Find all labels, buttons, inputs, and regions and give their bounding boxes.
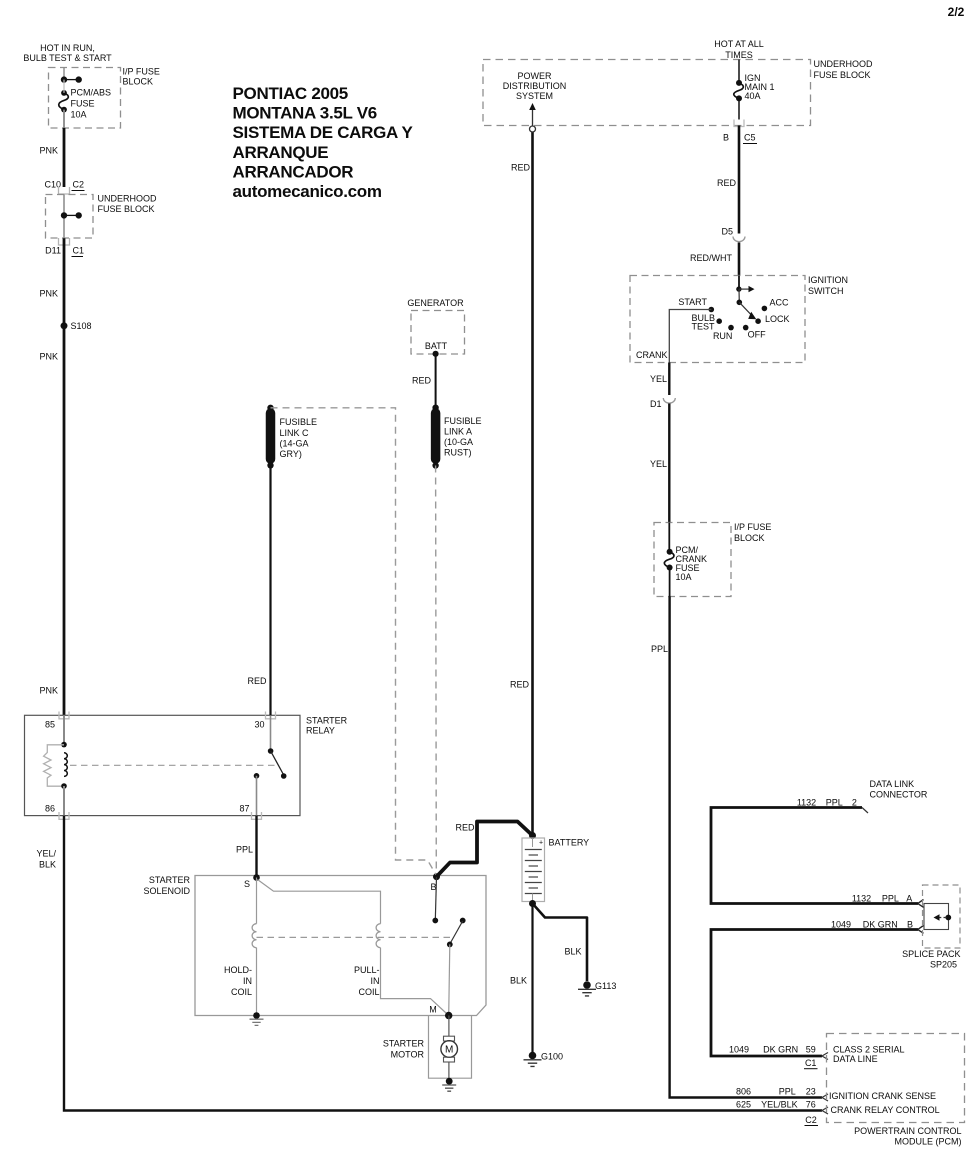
svg-text:RED: RED [412,376,432,386]
wire end tick at PCM pin 23 [822,1094,828,1101]
svg-text:C1: C1 [805,1058,817,1068]
svg-text:BATTERY: BATTERY [549,838,590,848]
wire 1049 DK GRN splice pack B to PCM 59 [711,919,924,1056]
svg-text:RUN: RUN [713,331,733,341]
svg-text:G100: G100 [541,1052,563,1062]
svg-text:BLOCK: BLOCK [734,533,765,543]
svg-text:CLASS 2 SERIAL: CLASS 2 SERIAL [833,1044,905,1054]
svg-text:PCM/ABS: PCM/ABS [71,88,112,98]
solenoid contact switch [432,877,465,1016]
svg-text:C1: C1 [73,246,85,256]
wire 1132 PPL DLC to splice pack A [711,808,924,908]
svg-text:PULL-: PULL- [354,965,380,975]
svg-text:MOTOR: MOTOR [391,1050,425,1060]
svg-text:BATT: BATT [425,341,448,351]
svg-text:1049: 1049 [831,919,851,929]
svg-text:PNK: PNK [39,686,58,696]
contact BULB TEST [691,313,722,332]
fuse PCM/CRANK 10A [664,523,707,597]
fusible link C [267,405,317,469]
svg-text:S: S [244,879,250,889]
svg-text:CRANK RELAY CONTROL: CRANK RELAY CONTROL [831,1105,940,1115]
pull-in coil [258,880,449,1016]
contact ACC [762,298,789,312]
svg-text:85: 85 [45,720,55,730]
fuse IGN MAIN 1 40A [734,60,775,120]
svg-text:1132: 1132 [797,797,816,807]
wire BLK battery to G113 [533,904,588,982]
connector D11 / C1 [45,238,84,257]
node battery negative [529,900,536,907]
svg-text:I/P FUSE: I/P FUSE [123,67,160,77]
svg-text:D5: D5 [721,227,733,237]
svg-text:IGNITION CRANK SENSE: IGNITION CRANK SENSE [829,1091,936,1101]
svg-text:BLK: BLK [564,947,581,957]
svg-text:RED: RED [455,823,475,833]
svg-text:PNK: PNK [39,352,58,362]
PCM pin labels 1049 DK GRN 59 C1 [729,1044,905,1068]
svg-text:YEL: YEL [650,459,667,469]
svg-text:TIMES: TIMES [725,50,753,60]
dashed actuation link coil to contact [70,764,279,766]
svg-text:POWER: POWER [517,71,552,81]
node open circle to power distribution [530,126,536,132]
wire YEL D1 to I/P fuse block [650,404,669,523]
svg-text:625: 625 [736,1100,751,1110]
arrow to power distribution [529,103,536,126]
svg-text:SISTEMA DE CARGA Y: SISTEMA DE CARGA Y [233,123,414,142]
ground at hold-in coil [250,1012,264,1025]
svg-text:2: 2 [852,797,857,807]
svg-text:BLOCK: BLOCK [123,77,154,87]
svg-text:PPL: PPL [882,894,899,904]
svg-text:FUSE BLOCK: FUSE BLOCK [98,204,155,214]
node B terminal [430,873,440,892]
node label HOT IN RUN BULB TEST & START [23,43,112,63]
wire 1132 PPL labels at splice A [852,894,912,904]
svg-text:LINK C: LINK C [280,428,310,438]
svg-text:1132: 1132 [852,894,871,904]
svg-text:D11: D11 [45,246,61,256]
svg-text:DATA LINE: DATA LINE [833,1054,878,1064]
svg-text:BULB TEST & START: BULB TEST & START [23,53,112,63]
wire YEL/BLK relay 86 to PCM 76 [36,816,822,1111]
splice pack SP205 [902,885,960,970]
svg-text:YEL/BLK: YEL/BLK [761,1100,798,1110]
connector D1 [650,398,675,409]
svg-text:YEL/: YEL/ [36,849,56,859]
connector B / C5 [723,120,757,144]
node BATT terminal [433,351,439,357]
svg-text:FUSE: FUSE [71,99,95,109]
svg-text:C5: C5 [744,133,756,143]
svg-text:HOT IN RUN,: HOT IN RUN, [40,43,95,53]
ignition switch box [630,275,848,363]
node S terminal [244,874,260,889]
svg-text:40A: 40A [745,91,761,101]
wire PPL fuse to PCM 23 [651,597,822,1098]
svg-text:M: M [429,1005,437,1015]
wire BLK battery to G100 [510,904,533,1054]
svg-text:BLK: BLK [39,860,56,870]
wire PPL relay 87 to solenoid S [236,816,257,878]
battery BAT1 [522,832,589,904]
connector C10 / C2 [44,180,84,195]
hold-in coil labels [224,965,252,997]
dashed actuation link coils to contact [257,936,452,938]
svg-text:FUSIBLE: FUSIBLE [280,417,318,427]
svg-text:SPLICE PACK: SPLICE PACK [902,949,960,959]
svg-text:+: + [539,840,543,847]
svg-text:STARTER: STARTER [383,1039,425,1049]
svg-text:POWERTRAIN CONTROL: POWERTRAIN CONTROL [854,1126,961,1136]
pin 87 bracket [252,812,262,819]
svg-text:30: 30 [254,720,264,730]
pin 86 bracket [59,812,69,819]
svg-text:RED/WHT: RED/WHT [690,253,732,263]
starter relay U-relay box [25,715,348,815]
svg-text:DK GRN: DK GRN [863,919,898,929]
svg-text:automecanico.com: automecanico.com [233,182,382,201]
fusible link A [432,405,481,469]
svg-text:YEL: YEL [650,374,667,384]
wire through underhood block [63,195,65,239]
svg-text:ARRANCADOR: ARRANCADOR [233,162,354,181]
svg-text:10A: 10A [676,572,692,582]
svg-text:IN: IN [243,976,252,986]
svg-text:GRY): GRY) [280,449,302,459]
svg-text:MONTANA 3.5L V6: MONTANA 3.5L V6 [233,104,377,123]
svg-text:(14-GA: (14-GA [280,439,309,449]
svg-text:1049: 1049 [729,1044,749,1054]
data link connector label [797,779,928,807]
title block [233,84,414,201]
wire end tick at PCM pin 76 [822,1107,828,1114]
svg-text:OFF: OFF [748,329,766,339]
svg-text:SOLENOID: SOLENOID [143,886,190,896]
bus bar node [61,77,81,82]
I/P fuse block (right) [654,522,771,597]
svg-text:86: 86 [45,804,55,814]
svg-text:I/P FUSE: I/P FUSE [734,522,771,532]
pin 85 bracket [59,712,69,719]
svg-text:COIL: COIL [358,987,379,997]
svg-text:ACC: ACC [769,298,789,308]
ignition switch rotor blade [737,300,757,320]
hold-in coil [252,878,256,1016]
svg-text:D1: D1 [650,399,662,409]
svg-text:UNDERHOOD: UNDERHOOD [98,194,158,204]
ground G113 [578,981,616,996]
svg-text:S108: S108 [71,321,92,331]
wire RED battery to solenoid B [437,822,533,877]
wire stub into fuse block [63,68,65,80]
svg-text:RED: RED [510,680,530,690]
relay coil K1 with parallel resistor [44,715,68,815]
connector D5 [721,227,745,242]
svg-text:PPL: PPL [651,644,668,654]
svg-text:A: A [906,894,912,904]
power distribution system label [503,71,567,101]
PCM box [827,1034,965,1147]
PCM pin labels 806 PPL 23 [736,1087,936,1102]
svg-text:LINK A: LINK A [444,427,472,437]
svg-text:PPL: PPL [779,1087,796,1097]
wire YEL ignition switch to D1 [650,363,669,396]
wire RED/WHT D5 to ignition switch [690,243,739,276]
svg-text:M: M [445,1045,453,1056]
wire end tick at PCM pin 59 [822,1053,828,1060]
svg-text:COIL: COIL [231,987,252,997]
contact OFF [743,325,766,340]
node M terminal [429,1005,452,1020]
svg-text:IN: IN [371,976,380,986]
svg-text:PPL: PPL [236,845,253,855]
fuse PCM/ABS 10A [59,88,111,120]
svg-text:RED: RED [717,178,737,188]
contact START [678,297,714,312]
svg-text:RED: RED [247,676,267,686]
svg-text:PNK: PNK [39,146,58,156]
svg-text:RED: RED [511,163,531,173]
svg-text:STARTER: STARTER [149,875,191,885]
svg-text:2/2: 2/2 [948,5,965,19]
svg-text:RUST): RUST) [444,448,472,458]
svg-text:SP205: SP205 [930,960,957,970]
ground G100 [524,1052,564,1067]
pin 30 bracket [266,712,276,719]
svg-text:(10-GA: (10-GA [444,437,473,447]
svg-text:B: B [907,919,913,929]
page number 2/2 [948,5,965,19]
PCM pin labels 625 YEL/BLK 76 C2 [736,1100,940,1126]
svg-text:TEST: TEST [691,321,715,331]
svg-text:HOLD-: HOLD- [224,965,252,975]
underhood fuse block (top) [483,59,873,126]
contact RUN [713,325,734,341]
wire RED C5 to D5 [717,126,739,234]
svg-text:MODULE (PCM): MODULE (PCM) [895,1137,962,1147]
svg-text:STARTER: STARTER [306,716,348,726]
bus bar node in underhood block [61,213,81,218]
wire RED power distribution to battery [510,132,533,836]
svg-text:CRANK: CRANK [636,350,668,360]
svg-text:806: 806 [736,1087,751,1097]
svg-text:C2: C2 [805,1115,817,1125]
svg-text:RELAY: RELAY [306,726,335,736]
svg-text:10A: 10A [71,110,87,120]
svg-text:PNK: PNK [39,289,58,299]
svg-text:GENERATOR: GENERATOR [407,298,464,308]
svg-text:DATA LINK: DATA LINK [870,779,915,789]
svg-text:PPL: PPL [826,797,843,807]
underhood fuse block (left) [46,194,158,239]
svg-text:PONTIAC 2005: PONTIAC 2005 [233,84,348,103]
pull-in coil labels [354,965,380,997]
svg-text:DK GRN: DK GRN [763,1044,798,1054]
svg-text:23: 23 [806,1087,816,1097]
wire CRANK from START contact [636,310,711,363]
svg-text:SWITCH: SWITCH [808,286,844,296]
svg-text:IGNITION: IGNITION [808,275,848,285]
svg-text:CONNECTOR: CONNECTOR [870,790,928,800]
svg-text:B: B [723,133,729,143]
svg-text:FUSE BLOCK: FUSE BLOCK [814,70,871,80]
starter motor enclosure [429,1016,472,1079]
I/P fuse block (left) [49,67,160,129]
dashed wire fusible link A to node B [435,466,438,874]
svg-text:HOT AT ALL: HOT AT ALL [714,39,764,49]
contact LOCK [755,314,789,324]
dashed wire fusible link C to node B [271,408,437,876]
svg-text:FUSIBLE: FUSIBLE [444,416,482,426]
node label HOT AT ALL TIMES [714,39,764,60]
ignition switch feed node and arrow [736,276,754,303]
svg-text:76: 76 [806,1100,816,1110]
svg-text:START: START [678,297,707,307]
svg-text:G113: G113 [595,981,616,991]
svg-text:87: 87 [239,804,249,814]
svg-text:UNDERHOOD: UNDERHOOD [814,59,874,69]
starter solenoid box [143,875,486,1016]
svg-text:59: 59 [806,1044,816,1054]
svg-text:SYSTEM: SYSTEM [516,91,553,101]
generator box [407,298,464,354]
starter motor M1 [383,1016,458,1079]
splice S108 [61,321,92,331]
wire PNK fuse to C10 [39,80,64,187]
wire RED fusible link C to relay 30 [247,465,270,715]
svg-text:DISTRIBUTION: DISTRIBUTION [503,81,567,91]
svg-text:C2: C2 [73,180,85,190]
svg-text:ARRANQUE: ARRANQUE [233,143,329,162]
relay contact 30/87 [254,715,287,815]
svg-text:BLK: BLK [510,976,527,986]
wire PNK D11 to relay pin 85 [39,238,64,715]
svg-text:LOCK: LOCK [765,314,790,324]
wire RED generator to fusible link A [412,354,436,408]
ground at starter motor [442,1078,456,1091]
